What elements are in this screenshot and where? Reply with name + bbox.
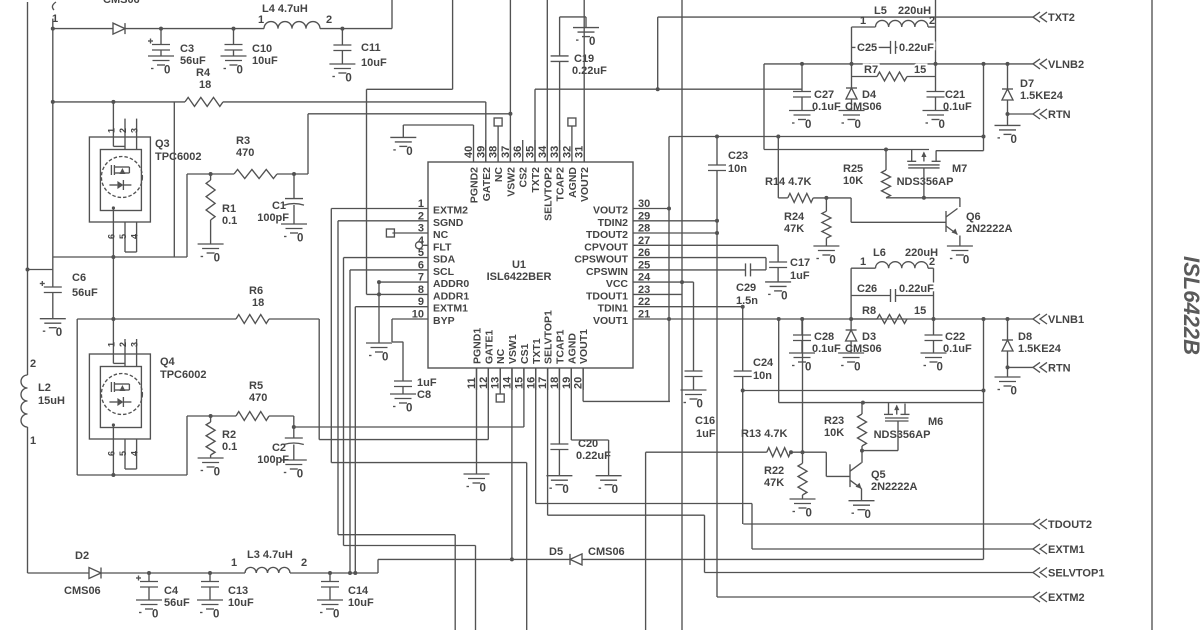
svg-text:D5: D5 — [549, 546, 563, 558]
svg-text:C14: C14 — [348, 585, 369, 597]
svg-text:2: 2 — [929, 15, 935, 27]
svg-text:10K: 10K — [824, 427, 844, 439]
svg-text:1uF: 1uF — [696, 428, 716, 440]
svg-text:R25: R25 — [843, 163, 863, 175]
svg-text:C29: C29 — [736, 282, 756, 294]
svg-text:0: 0 — [214, 253, 220, 265]
svg-text:0: 0 — [382, 352, 388, 364]
svg-text:0.1uF: 0.1uF — [812, 343, 841, 355]
svg-text:NC: NC — [495, 348, 507, 364]
svg-text:M7: M7 — [952, 163, 967, 175]
svg-text:R7: R7 — [864, 64, 878, 76]
svg-text:47K: 47K — [784, 223, 804, 235]
svg-text:TDOUT2: TDOUT2 — [1048, 519, 1092, 531]
svg-text:C8: C8 — [417, 389, 431, 401]
svg-text:1.5KE24: 1.5KE24 — [1018, 343, 1062, 355]
svg-text:0: 0 — [854, 362, 860, 374]
svg-text:0.1uF: 0.1uF — [943, 343, 972, 355]
svg-text:RTN: RTN — [1048, 362, 1071, 374]
svg-text:VOUT1: VOUT1 — [593, 315, 628, 327]
svg-text:SCL: SCL — [433, 266, 455, 278]
svg-text:15uH: 15uH — [38, 395, 65, 407]
svg-text:0: 0 — [805, 362, 811, 374]
svg-text:D4: D4 — [862, 89, 877, 101]
svg-text:38: 38 — [488, 146, 500, 158]
svg-text:ADDR1: ADDR1 — [433, 290, 469, 302]
svg-text:PGND1: PGND1 — [472, 328, 484, 364]
svg-text:PGND2: PGND2 — [469, 167, 481, 203]
svg-text:36: 36 — [512, 146, 524, 158]
svg-text:0: 0 — [164, 65, 170, 77]
svg-text:GATE1: GATE1 — [483, 330, 495, 364]
svg-text:0: 0 — [829, 255, 835, 267]
svg-text:C4: C4 — [164, 585, 179, 597]
svg-text:D7: D7 — [1020, 78, 1034, 90]
svg-text:CMS06: CMS06 — [845, 101, 882, 113]
svg-text:TCAP2: TCAP2 — [555, 167, 567, 202]
svg-text:10uF: 10uF — [252, 55, 278, 67]
svg-text:18: 18 — [252, 297, 264, 309]
svg-text:TDOUT1: TDOUT1 — [586, 290, 628, 302]
svg-text:5: 5 — [118, 234, 128, 239]
svg-text:0.1uF: 0.1uF — [812, 101, 841, 113]
svg-text:100pF: 100pF — [257, 454, 289, 466]
svg-text:C22: C22 — [945, 331, 965, 343]
svg-text:SELVTOP1: SELVTOP1 — [1048, 568, 1104, 580]
svg-text:BYP: BYP — [433, 315, 455, 327]
svg-text:CMS06: CMS06 — [64, 585, 101, 597]
svg-text:0.22uF: 0.22uF — [899, 42, 934, 54]
svg-text:TCAP1: TCAP1 — [554, 329, 566, 364]
svg-text:1: 1 — [231, 557, 237, 569]
svg-text:L4 4.7uH: L4 4.7uH — [262, 3, 308, 15]
svg-text:470: 470 — [249, 392, 267, 404]
svg-text:Q3: Q3 — [155, 138, 170, 150]
svg-text:CPSWIN: CPSWIN — [586, 266, 628, 278]
svg-text:0: 0 — [406, 146, 412, 158]
svg-text:4: 4 — [130, 234, 140, 239]
svg-text:VLNB1: VLNB1 — [1048, 314, 1084, 326]
svg-text:AGND: AGND — [567, 167, 579, 198]
svg-text:SELVTOP2: SELVTOP2 — [542, 167, 554, 221]
svg-text:15: 15 — [914, 305, 926, 317]
svg-text:EXTM1: EXTM1 — [1048, 544, 1085, 556]
svg-text:R1: R1 — [222, 203, 236, 215]
svg-text:D8: D8 — [1018, 331, 1032, 343]
svg-text:2: 2 — [30, 358, 36, 370]
svg-text:C16: C16 — [695, 415, 715, 427]
svg-text:VLNB2: VLNB2 — [1048, 59, 1084, 71]
svg-text:0: 0 — [562, 484, 568, 496]
svg-text:1: 1 — [107, 128, 117, 133]
svg-text:0: 0 — [1011, 134, 1017, 146]
svg-text:VSW1: VSW1 — [507, 334, 519, 364]
svg-text:0.1: 0.1 — [222, 215, 237, 227]
svg-text:0: 0 — [406, 403, 412, 415]
svg-text:2: 2 — [118, 128, 128, 133]
svg-text:0: 0 — [805, 119, 811, 131]
svg-text:TXT1: TXT1 — [531, 338, 543, 364]
svg-text:R2: R2 — [222, 429, 236, 441]
svg-text:C2: C2 — [272, 442, 286, 454]
svg-text:47K: 47K — [764, 477, 784, 489]
svg-text:1uF: 1uF — [417, 377, 437, 389]
svg-text:CPVOUT: CPVOUT — [584, 241, 628, 253]
svg-text:R24: R24 — [784, 211, 805, 223]
svg-text:2: 2 — [118, 342, 128, 347]
svg-text:1: 1 — [258, 14, 264, 26]
svg-text:470: 470 — [236, 147, 254, 159]
svg-text:2N2222A: 2N2222A — [966, 223, 1013, 235]
svg-text:4: 4 — [130, 451, 140, 456]
svg-text:10K: 10K — [843, 175, 863, 187]
svg-text:0.22uF: 0.22uF — [899, 283, 934, 295]
svg-text:C10: C10 — [252, 43, 272, 55]
svg-text:R23: R23 — [824, 415, 844, 427]
svg-text:10uF: 10uF — [361, 57, 387, 69]
svg-text:VCC: VCC — [606, 278, 629, 290]
svg-text:SDA: SDA — [433, 254, 456, 266]
svg-text:ADDR0: ADDR0 — [433, 278, 469, 290]
svg-text:0: 0 — [1011, 386, 1017, 398]
svg-text:C27: C27 — [814, 89, 834, 101]
svg-text:3: 3 — [130, 128, 140, 133]
svg-text:TDIN2: TDIN2 — [598, 217, 628, 229]
svg-text:VOUT2: VOUT2 — [593, 205, 628, 217]
svg-text:AGND: AGND — [566, 333, 578, 364]
svg-text:TDIN1: TDIN1 — [598, 303, 628, 315]
svg-text:NDS356AP: NDS356AP — [874, 429, 931, 441]
svg-text:CS2: CS2 — [518, 167, 530, 188]
svg-text:EXTM1: EXTM1 — [433, 303, 468, 315]
svg-text:M6: M6 — [928, 416, 943, 428]
svg-text:2: 2 — [301, 557, 307, 569]
svg-text:NDS356AP: NDS356AP — [897, 176, 954, 188]
svg-text:0.22uF: 0.22uF — [572, 65, 607, 77]
svg-text:0: 0 — [855, 119, 861, 131]
svg-text:R13 4.7K: R13 4.7K — [741, 428, 788, 440]
svg-text:R4: R4 — [196, 67, 211, 79]
svg-text:10n: 10n — [753, 370, 772, 382]
svg-text:2: 2 — [929, 256, 935, 268]
svg-text:18: 18 — [199, 79, 211, 91]
svg-text:CS1: CS1 — [519, 343, 531, 364]
svg-text:1.5KE24: 1.5KE24 — [1020, 90, 1064, 102]
svg-text:5: 5 — [118, 451, 128, 456]
svg-text:0: 0 — [963, 255, 969, 267]
svg-text:0: 0 — [333, 609, 339, 621]
svg-text:L3 4.7uH: L3 4.7uH — [247, 549, 293, 561]
svg-text:NC: NC — [493, 167, 505, 183]
svg-text:TXT2: TXT2 — [530, 167, 542, 193]
svg-text:FLT: FLT — [433, 241, 452, 253]
svg-text:SELVTOP1: SELVTOP1 — [543, 310, 555, 364]
svg-text:1: 1 — [860, 256, 866, 268]
svg-text:TXT2: TXT2 — [1048, 12, 1075, 24]
svg-text:R5: R5 — [249, 380, 263, 392]
svg-text:0: 0 — [865, 509, 871, 521]
svg-text:0: 0 — [939, 119, 945, 131]
svg-text:3: 3 — [130, 342, 140, 347]
svg-text:C1: C1 — [272, 200, 286, 212]
svg-text:0: 0 — [589, 36, 595, 48]
svg-text:0.1: 0.1 — [222, 441, 237, 453]
svg-text:D2: D2 — [75, 550, 89, 562]
svg-text:0: 0 — [480, 483, 486, 495]
svg-text:1: 1 — [860, 15, 866, 27]
svg-text:U1: U1 — [512, 259, 526, 271]
svg-text:R8: R8 — [862, 305, 876, 317]
svg-text:0.1uF: 0.1uF — [943, 101, 972, 113]
svg-text:EXTM2: EXTM2 — [1048, 592, 1085, 604]
svg-text:R22: R22 — [764, 465, 784, 477]
svg-text:L6: L6 — [873, 247, 886, 259]
svg-text:C6: C6 — [72, 272, 86, 284]
svg-text:1uF: 1uF — [790, 270, 810, 282]
svg-text:0: 0 — [214, 467, 220, 479]
svg-text:0: 0 — [806, 508, 812, 520]
svg-text:6: 6 — [107, 451, 117, 456]
svg-text:R3: R3 — [236, 135, 250, 147]
svg-text:C25: C25 — [857, 42, 877, 54]
svg-text:TDOUT2: TDOUT2 — [586, 229, 628, 241]
svg-text:L2: L2 — [38, 382, 51, 394]
svg-text:0: 0 — [56, 327, 62, 339]
svg-text:Q5: Q5 — [871, 469, 886, 481]
svg-text:EXTM2: EXTM2 — [433, 205, 468, 217]
svg-text:0: 0 — [937, 362, 943, 374]
svg-text:10n: 10n — [728, 163, 747, 175]
svg-text:Q6: Q6 — [966, 211, 981, 223]
svg-text:1: 1 — [30, 435, 36, 447]
svg-text:TPC6002: TPC6002 — [155, 151, 201, 163]
svg-text:C11: C11 — [361, 42, 381, 54]
svg-text:C13: C13 — [228, 585, 248, 597]
svg-text:R6: R6 — [249, 285, 263, 297]
svg-text:56uF: 56uF — [180, 55, 206, 67]
svg-text:2N2222A: 2N2222A — [871, 481, 918, 493]
svg-text:Q4: Q4 — [160, 356, 176, 368]
svg-text:10uF: 10uF — [348, 597, 374, 609]
svg-text:CMS06: CMS06 — [588, 546, 625, 558]
svg-text:100pF: 100pF — [257, 212, 289, 224]
svg-text:C24: C24 — [753, 357, 774, 369]
svg-text:L5: L5 — [874, 5, 887, 17]
svg-text:2: 2 — [326, 14, 332, 26]
svg-text:NC: NC — [433, 229, 449, 241]
svg-text:TPC6002: TPC6002 — [160, 369, 206, 381]
svg-text:VSW2: VSW2 — [505, 167, 517, 197]
svg-text:ISL6422BER: ISL6422BER — [487, 271, 552, 283]
svg-text:56uF: 56uF — [72, 287, 98, 299]
svg-text:0.22uF: 0.22uF — [576, 450, 611, 462]
svg-text:CMS06: CMS06 — [103, 0, 140, 6]
svg-text:10uF: 10uF — [228, 597, 254, 609]
svg-text:C23: C23 — [728, 150, 748, 162]
svg-text:R14 4.7K: R14 4.7K — [765, 176, 812, 188]
svg-text:CMS06: CMS06 — [845, 343, 882, 355]
svg-text:0: 0 — [345, 73, 351, 85]
svg-text:0: 0 — [237, 65, 243, 77]
svg-text:0: 0 — [781, 290, 787, 302]
svg-text:GATE2: GATE2 — [481, 167, 493, 201]
svg-text:C26: C26 — [857, 283, 877, 295]
svg-text:D3: D3 — [862, 331, 876, 343]
svg-text:0: 0 — [152, 609, 158, 621]
svg-text:15: 15 — [914, 64, 926, 76]
svg-text:40: 40 — [463, 146, 475, 158]
svg-text:SGND: SGND — [433, 217, 464, 229]
svg-text:RTN: RTN — [1048, 109, 1071, 121]
svg-text:220uH: 220uH — [898, 5, 931, 17]
svg-text:C28: C28 — [814, 331, 834, 343]
svg-text:VOUT1: VOUT1 — [578, 329, 590, 364]
svg-text:CPSWOUT: CPSWOUT — [574, 254, 628, 266]
svg-text:VOUT2: VOUT2 — [579, 167, 591, 202]
svg-text:C17: C17 — [790, 257, 810, 269]
svg-text:0: 0 — [297, 469, 303, 481]
svg-text:0: 0 — [697, 399, 703, 411]
svg-text:0: 0 — [213, 609, 219, 621]
svg-text:0: 0 — [612, 484, 618, 496]
svg-text:C21: C21 — [945, 89, 965, 101]
svg-text:C3: C3 — [180, 43, 194, 55]
svg-text:56uF: 56uF — [164, 597, 190, 609]
svg-text:1.5n: 1.5n — [736, 295, 758, 307]
svg-text:ISL6422B: ISL6422B — [1179, 256, 1200, 355]
svg-text:6: 6 — [107, 234, 117, 239]
svg-text:0: 0 — [297, 233, 303, 245]
svg-text:32: 32 — [561, 146, 573, 158]
svg-text:1: 1 — [107, 342, 117, 347]
